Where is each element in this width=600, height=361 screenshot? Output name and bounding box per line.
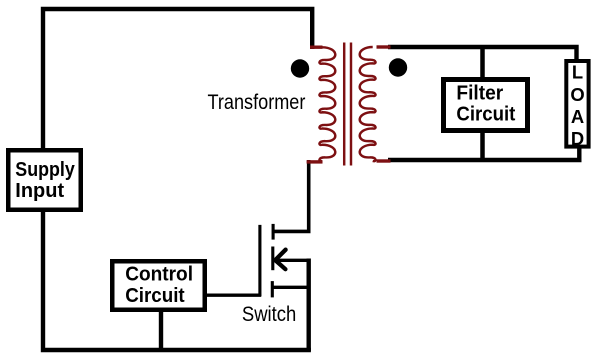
svg-text:Filter: Filter bbox=[456, 82, 503, 104]
transformer T1 secondary phase dot bbox=[389, 58, 407, 76]
transistor Q1 body stub wire bbox=[276, 259, 311, 262]
svg-text:Control: Control bbox=[125, 264, 193, 286]
block: LOAD box bbox=[566, 61, 588, 147]
svg-text:Circuit: Circuit bbox=[456, 104, 515, 126]
transformer T1 secondary bottom stub bbox=[377, 159, 391, 162]
transformer T1 primary winding bbox=[319, 47, 335, 161]
wire: secondary top rail to LOAD bbox=[388, 47, 577, 63]
wire: filter circuit branch bbox=[480, 47, 485, 162]
svg-text:Input: Input bbox=[15, 180, 64, 202]
transformer T1 primary phase dot bbox=[291, 59, 309, 77]
svg-text:D: D bbox=[571, 128, 584, 149]
transformer T1 core line left bbox=[343, 43, 345, 166]
wire: secondary bottom rail to LOAD bbox=[388, 145, 579, 160]
wire: control circuit bottom drop bbox=[159, 311, 163, 350]
svg-text:O: O bbox=[570, 84, 584, 105]
transistor Q1 body arrow bbox=[275, 250, 285, 270]
svg-text:L: L bbox=[572, 62, 583, 83]
transformer T1 secondary winding bbox=[360, 47, 376, 161]
transformer T1 primary bottom stub bbox=[307, 160, 323, 163]
transformer T1 core line right bbox=[350, 43, 352, 166]
block: Filter Circuit box bbox=[444, 80, 528, 131]
wire: control circuit to switch gate bbox=[206, 294, 261, 297]
svg-text:Supply: Supply bbox=[15, 159, 75, 181]
svg-text:Circuit: Circuit bbox=[125, 285, 185, 307]
svg-text:Transformer: Transformer bbox=[208, 91, 306, 114]
wire: drain connection from transformer primary to switch bbox=[273, 160, 309, 231]
svg-text:Switch: Switch bbox=[242, 302, 296, 326]
transistor Q1 channel source segment bbox=[271, 281, 274, 297]
transformer T1 secondary top stub bbox=[377, 45, 391, 48]
svg-text:A: A bbox=[571, 106, 584, 127]
transformer T1 primary top stub bbox=[310, 46, 323, 49]
transistor Q1 gate line bbox=[258, 225, 261, 296]
wire: outer primary loop (top rail, left rail, bottom rail, switch drop) bbox=[43, 9, 312, 350]
block: Control Circuit box bbox=[112, 261, 205, 310]
block: Supply Input box bbox=[8, 150, 81, 210]
transistor Q1 channel body segment bbox=[271, 247, 274, 271]
transistor Q1 channel drain segment bbox=[272, 224, 275, 240]
wire: switch source/body drop to bottom rail bbox=[307, 259, 311, 352]
transistor Q1 source stub wire bbox=[273, 286, 310, 289]
